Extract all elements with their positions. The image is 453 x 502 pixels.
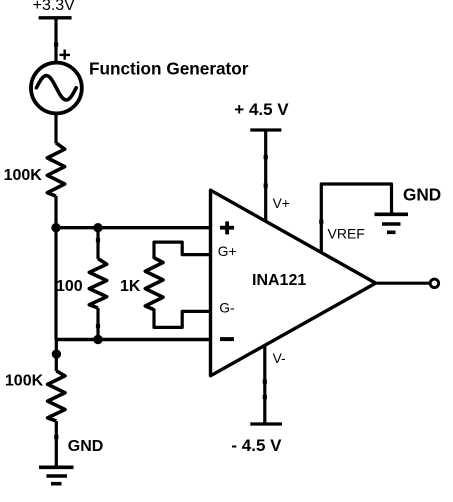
op-amp U1 INA121 triangle (211, 190, 376, 376)
wire joint nub (96, 324, 100, 328)
junction dot below node B (52, 349, 61, 358)
svg-text:1K: 1K (120, 278, 141, 295)
wire VREF to ground (321, 184, 391, 252)
wire V+ supply (264, 130, 267, 221)
op-amp - input marker (220, 337, 234, 341)
svg-text:100K: 100K (4, 167, 43, 184)
wire 1K bottom hook to G- pin (154, 309, 211, 328)
svg-text:Function Generator: Function Generator (89, 59, 249, 79)
wire +3.3V bar to function generator (54, 18, 57, 63)
svg-text:+ 4.5 V: + 4.5 V (234, 100, 289, 119)
svg-text:- 4.5 V: - 4.5 V (231, 436, 282, 455)
svg-text:G-: G- (219, 300, 234, 315)
op-amp + input marker (220, 221, 234, 234)
wire R1 to node A (54, 196, 57, 228)
junction dot at R2 top (93, 223, 102, 232)
wire R4 to ground (55, 421, 58, 467)
wire R2 top lead (96, 228, 99, 259)
wire joint nub (263, 380, 267, 384)
ground symbol left (39, 467, 74, 483)
wire joint nub (264, 155, 268, 159)
junction dot at R2 bottom (93, 335, 102, 344)
svg-text:V-: V- (273, 351, 286, 366)
function generator V1 circle (31, 63, 82, 114)
wire joint nub (54, 43, 58, 47)
node A junction dot (51, 223, 60, 232)
wire joint nub (263, 395, 267, 399)
wire node B down to R4 (55, 340, 58, 372)
resistor R1 100K (47, 143, 64, 196)
ground symbol right (375, 214, 409, 232)
output wire (377, 282, 431, 285)
wire node B to op-amp - input (56, 338, 211, 341)
wire 1K top hook to G+ pin (154, 242, 211, 259)
svg-text:100: 100 (56, 278, 83, 295)
wire left rail node A down to node B (54, 228, 57, 340)
wire R2 bottom lead (96, 308, 99, 340)
resistor R2 100 (89, 259, 106, 308)
svg-text:GND: GND (68, 438, 104, 455)
wire joint nub (54, 435, 58, 439)
polarity + of function generator (60, 50, 71, 60)
V- supply bar (250, 422, 282, 425)
resistor R4 100K (48, 371, 65, 421)
svg-text:INA121: INA121 (252, 272, 306, 289)
svg-text:GND: GND (403, 184, 441, 204)
svg-text:VREF: VREF (328, 226, 365, 242)
output terminal circle (430, 279, 439, 288)
function generator sine waveform (36, 76, 76, 100)
resistor R3 1K (145, 258, 163, 310)
wire joint nub (96, 238, 100, 242)
V+ supply bar (250, 128, 281, 131)
wire joint nub (264, 184, 268, 188)
svg-text:G+: G+ (218, 244, 237, 259)
svg-text:100K: 100K (5, 373, 44, 390)
+3.3V supply bar (39, 16, 72, 19)
svg-text:V+: V+ (273, 196, 290, 211)
svg-text:+3.3V: +3.3V (33, 0, 76, 14)
wire joint nub (319, 220, 323, 224)
wire V- supply (263, 345, 266, 424)
wire node A to op-amp + input (56, 226, 211, 229)
wire function generator to R1 (54, 114, 57, 144)
